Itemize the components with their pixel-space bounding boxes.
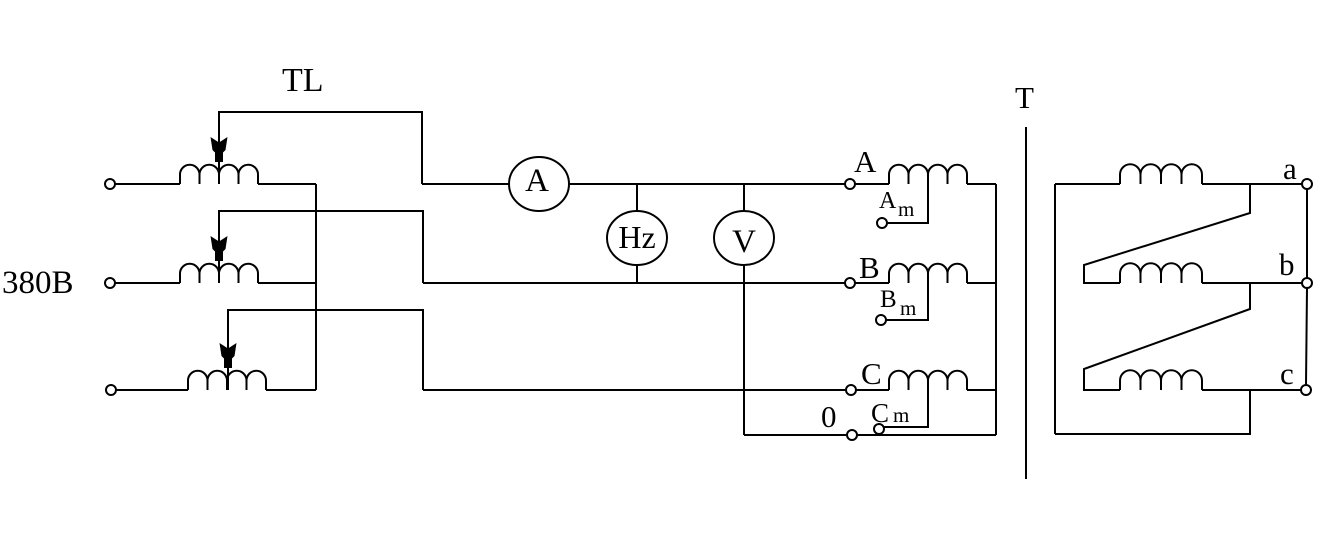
terminal 0 <box>847 430 857 440</box>
wire secondary a right lead <box>1202 183 1302 185</box>
wiper arrow 1 <box>211 137 228 162</box>
transformer secondary winding c <box>1120 370 1202 390</box>
zigzag link b-c <box>1084 283 1250 390</box>
transformer primary winding A <box>889 165 967 184</box>
tap wire Cm <box>884 390 928 427</box>
wiper arrow 3 <box>220 343 237 368</box>
transformer primary winding C <box>889 371 967 390</box>
wiper wire 2 <box>219 211 423 283</box>
svg-text:a: a <box>1283 151 1297 186</box>
zigzag link a-b <box>1084 184 1250 283</box>
wire V bottom lead to neutral <box>743 265 745 435</box>
wire primary B to star bus <box>967 282 996 284</box>
svg-text:B: B <box>880 286 897 313</box>
wire phase C line <box>423 389 846 391</box>
tap wire Am <box>887 184 928 223</box>
svg-text:m: m <box>900 296 916 320</box>
wire phase B line <box>423 282 845 284</box>
svg-text:b: b <box>1279 247 1295 282</box>
wire coil3 right end to tie bus <box>266 389 316 391</box>
tie bus vertical <box>315 184 317 390</box>
transformer secondary winding b <box>1120 263 1202 283</box>
terminal Cm <box>874 424 884 434</box>
terminal input phase 3 <box>106 385 116 395</box>
svg-text:c: c <box>1280 356 1294 391</box>
transformer T core line <box>1025 127 1027 479</box>
svg-text:TL: TL <box>282 62 324 99</box>
transformer secondary winding a <box>1120 164 1202 184</box>
svg-text:m: m <box>898 197 914 221</box>
terminal Am <box>877 218 887 228</box>
svg-text:V: V <box>732 224 756 260</box>
svg-text:T: T <box>1015 80 1034 115</box>
frequency meter Hz <box>607 211 667 265</box>
tap wire Bm <box>886 283 928 320</box>
svg-text:B: B <box>859 250 880 285</box>
terminal B <box>845 278 855 288</box>
terminal bus a-b <box>1306 189 1308 278</box>
svg-text:Hz: Hz <box>618 219 655 255</box>
wire phase A line <box>569 183 845 185</box>
wire terminal B to primary coil <box>855 282 889 284</box>
svg-text:C: C <box>871 398 889 428</box>
wire input 3 <box>116 389 188 391</box>
autotransformer TL winding 2 <box>180 264 258 283</box>
svg-text:m: m <box>893 403 909 427</box>
wire Hz top lead <box>636 184 638 211</box>
autotransformer TL winding 3 <box>188 371 266 390</box>
terminal b <box>1302 278 1312 288</box>
ammeter PA1 <box>509 157 569 211</box>
svg-text:A: A <box>854 144 877 179</box>
wire secondary return loop <box>1055 390 1250 434</box>
wire phase A to ammeter <box>422 183 509 185</box>
terminal bus b-c <box>1306 288 1307 385</box>
svg-text:A: A <box>879 188 897 214</box>
wiper wire 1 <box>219 112 422 184</box>
voltmeter V <box>714 211 774 265</box>
wire input 1 <box>115 183 180 185</box>
wire primary C to star bus <box>967 389 996 391</box>
wire Hz bottom lead <box>636 265 638 283</box>
terminal a <box>1302 179 1312 189</box>
wire terminal C to primary coil <box>856 389 889 391</box>
terminal Bm <box>876 315 886 325</box>
wiper wire 3 <box>228 310 423 390</box>
svg-text:C: C <box>861 356 882 391</box>
wire coil2 right end to tie bus <box>258 282 316 284</box>
transformer primary winding B <box>889 264 967 283</box>
wire secondary c right lead <box>1202 389 1301 391</box>
terminal input phase 2 <box>105 278 115 288</box>
autotransformer TL winding 1 <box>180 165 258 184</box>
wire neutral to star point <box>857 434 996 436</box>
terminal c <box>1301 385 1311 395</box>
svg-text:0: 0 <box>821 399 837 434</box>
terminal C <box>846 385 856 395</box>
wire primary A to star bus <box>967 183 996 185</box>
wire secondary b right lead <box>1202 282 1302 284</box>
wire coil1 right end to tie bus <box>258 183 316 185</box>
terminal A <box>845 179 855 189</box>
svg-text:380В: 380В <box>2 265 74 301</box>
wire secondary a left lead <box>1055 183 1120 185</box>
svg-text:A: A <box>525 163 549 199</box>
wiper arrow 2 <box>211 236 228 261</box>
wire terminal A to primary coil <box>855 183 889 185</box>
terminal input phase 1 <box>105 179 115 189</box>
star bus vertical <box>995 184 997 435</box>
wire neutral 0 line <box>744 434 847 436</box>
secondary left bus <box>1054 184 1056 434</box>
wire V top lead <box>743 184 745 211</box>
wire input 2 <box>115 282 180 284</box>
